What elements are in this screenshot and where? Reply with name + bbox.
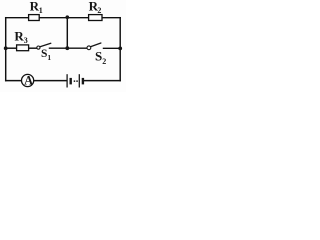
battery cell 1 long plate [66,74,68,87]
wire R3-to-S1 segment [29,47,37,49]
switch S1 [37,43,52,62]
wire S2-to-right segment [104,47,121,49]
svg-text:1: 1 [39,6,43,15]
svg-text:2: 2 [102,57,106,66]
battery gap dots [74,80,76,82]
junction dot middle-right [118,47,122,51]
battery cell 2 short plate [82,78,84,85]
junction dot middle-center [65,46,69,50]
junction dot top [66,15,70,19]
svg-text:2: 2 [97,6,101,15]
wire bottom-mid segment [34,80,66,82]
ammeter A [22,74,34,88]
wire middle-left segment [6,47,17,49]
wire bottom-right segment [85,80,121,82]
switch S2 [87,43,106,66]
resistor R2 [89,0,102,21]
battery cell 1 short plate [69,78,71,85]
wire top-mid segment [39,17,88,19]
battery cell 2 long plate [78,74,80,87]
wire bottom-left segment [6,80,22,82]
svg-text:S: S [95,49,102,64]
wire S1-to-S2 segment [50,47,88,49]
resistor R1 [29,0,43,21]
svg-text:A: A [24,74,33,88]
wire right edge [119,18,121,81]
resistor R3 [14,28,28,50]
svg-text:1: 1 [47,53,51,62]
wire top-left segment [6,17,29,19]
svg-text:3: 3 [24,36,28,45]
wire middle vertical [66,18,68,49]
wire top-right segment [102,17,120,19]
junction dot middle-left [4,46,8,50]
wire left edge [5,18,7,81]
